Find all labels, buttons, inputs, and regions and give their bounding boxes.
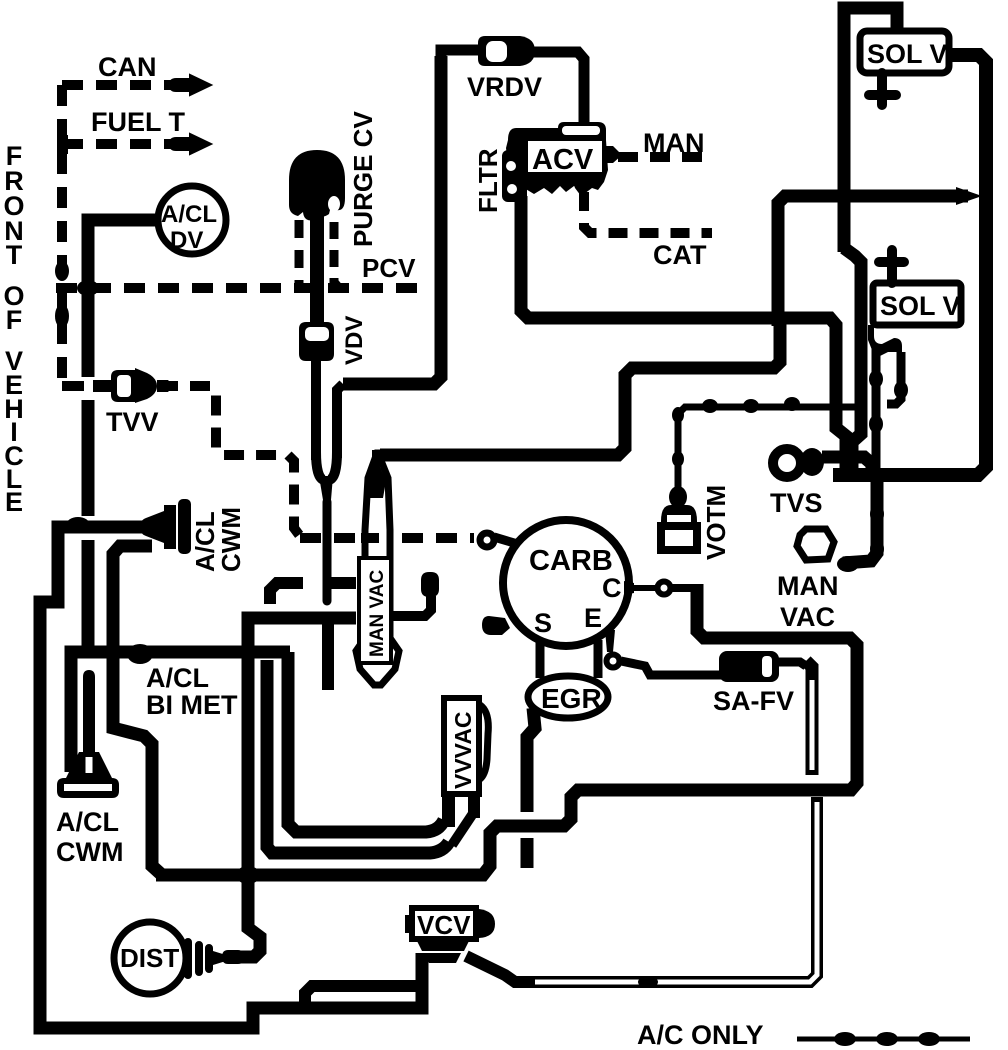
valve purge CV white notch xyxy=(328,196,340,212)
wire stub below obelisk line xyxy=(322,624,334,690)
wire ACV bottom line across xyxy=(521,196,846,468)
svg-text:A/CL: A/CL xyxy=(146,663,209,693)
filter FLTR box xyxy=(502,150,527,202)
valve VDV white slot xyxy=(305,327,329,341)
svg-text:T: T xyxy=(6,240,23,270)
wire E-ring lead to SA-FV xyxy=(621,661,721,675)
valve VRDV body xyxy=(478,36,535,66)
svg-text:TVV: TVV xyxy=(106,407,159,437)
svg-text:MAN: MAN xyxy=(777,571,839,601)
valve TVS donut xyxy=(773,449,801,477)
svg-text:VAC: VAC xyxy=(780,602,835,632)
node PCV junction on solid line xyxy=(77,280,99,296)
node diamond junction horn line xyxy=(66,517,90,533)
node dot on A/C hose xyxy=(638,976,658,988)
solenoid SOL V1 dagger xyxy=(869,73,896,105)
solenoid SOL V2 dagger xyxy=(879,250,904,283)
wire C-port thin lead xyxy=(628,585,655,591)
wire VDV thin stem xyxy=(323,502,332,601)
svg-text:ACV: ACV xyxy=(532,144,594,176)
svg-text:MAN VAC: MAN VAC xyxy=(367,569,388,657)
port CARB S nub xyxy=(482,616,510,635)
valve VVVAC right bracket xyxy=(480,705,488,779)
port CARB E ring xyxy=(607,655,620,668)
wire top U into SOL V1 xyxy=(844,8,897,252)
svg-text:SOL V: SOL V xyxy=(867,39,948,69)
wire C-ring to loop lead xyxy=(672,584,697,592)
svg-text:E: E xyxy=(5,487,23,517)
wire VCV left feeder xyxy=(305,986,422,1005)
svg-text:F: F xyxy=(6,305,23,335)
svg-text:CWM: CWM xyxy=(216,507,246,572)
node knob near obelisk xyxy=(421,572,439,597)
valve VVVAC left leg xyxy=(442,794,455,827)
wire VRDV left top xyxy=(441,50,478,62)
wire CAN dashed xyxy=(62,80,178,90)
wire big C-port loop xyxy=(156,584,857,875)
motor A/CL CWM bottom horn stem xyxy=(84,671,94,758)
wire SOL V2 lower stub long xyxy=(872,348,881,470)
valve ACV top slot xyxy=(558,122,606,140)
wire obelisk right side L to knob xyxy=(392,596,431,616)
wire VRDV right to ACV top xyxy=(533,52,584,122)
valve VCV left tick xyxy=(405,915,413,933)
wire BI MET right wall to hose hook xyxy=(288,652,444,832)
wire SOL V1 right rail down to TVS xyxy=(833,55,986,475)
wire MAN dashed xyxy=(618,152,712,162)
valve VOTM bucket xyxy=(661,505,697,526)
wire CAT dashed vertical xyxy=(584,192,712,233)
wire VOTM riser and across xyxy=(678,407,863,498)
solenoid SOL V2 box xyxy=(873,283,961,325)
arrow CAN xyxy=(170,75,211,95)
gauge MAN VAC text frame xyxy=(359,558,391,663)
wire right mid rail jog down to TVS junction xyxy=(844,248,861,468)
svg-text:PCV: PCV xyxy=(362,253,416,283)
wire SOL V2 lower stub short xyxy=(887,352,901,404)
wire purge CV stem xyxy=(310,205,324,324)
svg-text:S: S xyxy=(534,608,552,638)
node DIST junction blob xyxy=(222,950,244,964)
svg-text:E: E xyxy=(584,603,602,633)
port CARB C nipple xyxy=(624,581,634,595)
wire purge left drip dashed xyxy=(295,220,304,286)
wire CARB left ring nub xyxy=(494,537,521,545)
wire ACV branch up to SOL V right rail xyxy=(778,196,968,326)
valve ACV white label patch xyxy=(528,141,602,172)
svg-text:FLTR: FLTR xyxy=(473,148,503,213)
solenoid SOL V1 box xyxy=(860,31,949,73)
wire inner wall to second hose hook xyxy=(267,660,449,853)
wire purge right drip dashed xyxy=(334,222,339,288)
svg-text:SOL V: SOL V xyxy=(880,291,961,321)
valve VCV right bulge xyxy=(479,909,495,938)
svg-text:A/CL: A/CL xyxy=(56,807,119,837)
wire A/CL BI MET top line xyxy=(71,652,290,772)
valve ACV right arrow nub xyxy=(602,146,622,163)
node fat dash lower on left dashed line xyxy=(55,304,69,328)
motor A/CL CWM bottom horn bell xyxy=(66,752,112,778)
svg-text:FUEL T: FUEL T xyxy=(91,107,186,137)
wire TVV dashed left nipple xyxy=(62,381,84,391)
svg-text:CAT: CAT xyxy=(653,240,707,270)
svg-text:DIST: DIST xyxy=(120,943,179,973)
carburetor CARB circle xyxy=(503,520,629,646)
node T junction of FUEL T dashed xyxy=(57,135,68,154)
valve VCV base bands xyxy=(417,941,469,951)
wire y583 hose left segment with cap xyxy=(270,583,303,604)
wire MAN VAC riser xyxy=(380,324,780,455)
valve EGR ellipse xyxy=(528,676,608,718)
label FRONT OF VEHICLE xyxy=(3,141,24,517)
node dots on SOL V2 stubs xyxy=(869,370,883,388)
wire dash crossing obelisk xyxy=(361,533,379,543)
distributor DIST ribs xyxy=(188,942,209,975)
wire EGR down line lower xyxy=(521,838,534,868)
wire y583 hose right segment to obelisk xyxy=(331,577,356,589)
svg-text:VCV: VCV xyxy=(417,910,471,940)
valve A/CL DV circle xyxy=(158,186,226,254)
port CARB left ring xyxy=(480,533,494,547)
wire obelisk left line to DIST xyxy=(230,618,356,957)
legend A/C dots xyxy=(834,1032,856,1046)
valve ACV body blob xyxy=(506,128,608,196)
wire A/C only hose white core xyxy=(535,802,817,982)
valve TVV right nipple xyxy=(157,380,171,392)
port CARB C ring xyxy=(658,582,671,595)
wire PCV dashed xyxy=(56,283,422,293)
gauge MAN VAC obelisk tip xyxy=(366,450,386,498)
wire horn1 lower branch xyxy=(113,546,162,875)
wire A/CL DV to left column xyxy=(88,220,157,516)
wire TVS branch to MAN VAC hex xyxy=(843,478,877,563)
valve TVV white slot xyxy=(117,375,131,397)
solenoid SOL V2 bottom hook port xyxy=(868,325,902,356)
svg-text:SA-FV: SA-FV xyxy=(713,686,794,716)
svg-text:BI MET: BI MET xyxy=(146,690,238,720)
valve VVVAC box xyxy=(444,698,479,794)
wire main left loop: horn line down left edge to bottom and VCV xyxy=(40,527,422,1028)
svg-text:VDV: VDV xyxy=(341,316,368,365)
valve VVVAC right leg xyxy=(468,794,480,818)
node dot on VOTM riser xyxy=(669,486,687,508)
wire TVV dashed right path xyxy=(158,386,300,536)
node diamond junction BI MET line xyxy=(127,644,153,664)
wire VRDV left line down and over to VDV xyxy=(343,56,441,384)
wire FUEL T dashed xyxy=(62,139,178,149)
svg-text:VRDV: VRDV xyxy=(467,72,542,102)
svg-text:PURGE CV: PURGE CV xyxy=(348,111,378,247)
svg-text:VOTM: VOTM xyxy=(701,485,731,560)
svg-text:CWM: CWM xyxy=(56,837,123,867)
svg-text:A/CL: A/CL xyxy=(161,201,217,228)
valve SA-FV body xyxy=(719,651,779,682)
gap where TVV dashed crosses left solid line xyxy=(80,377,96,400)
valve ACV bottom drip xyxy=(570,172,592,196)
svg-text:TVS: TVS xyxy=(770,488,823,518)
svg-text:CARB: CARB xyxy=(529,545,613,577)
arrow FUEL T xyxy=(170,134,211,154)
port CARB E nipple xyxy=(605,630,615,652)
wire horn2 stem line xyxy=(82,540,95,646)
valve VDV taper stem xyxy=(319,476,333,507)
wire CARB neck to EGR right xyxy=(594,640,603,678)
valve purge CV bulb xyxy=(289,150,345,220)
wire CARB neck to EGR left xyxy=(536,642,545,678)
node arrowhead on SOL V rail junction xyxy=(956,187,982,205)
wire left vertical dashed xyxy=(57,85,67,384)
motor A/CL CWM top horn xyxy=(140,511,164,543)
wire SA-FV right tube down xyxy=(806,661,812,775)
valve VCV box xyxy=(412,908,476,939)
svg-text:EGR: EGR xyxy=(541,683,602,714)
valve VRDV white slot xyxy=(486,41,507,62)
svg-text:C: C xyxy=(602,573,622,603)
gauge MAN VAC obelisk body xyxy=(356,453,399,685)
svg-text:MAN: MAN xyxy=(643,128,705,158)
wire A/C only hose from VCV corner xyxy=(466,797,817,982)
node junction on y875 line xyxy=(236,866,260,884)
wire EGR down line xyxy=(527,708,535,812)
valve VDV box xyxy=(299,322,334,361)
wire legend line xyxy=(797,1037,970,1042)
wire VDV merge stem xyxy=(316,452,337,480)
valve TVS nipple xyxy=(800,448,824,476)
wire long dashed to CARB xyxy=(300,533,474,543)
wire SA-FV right nipple lead xyxy=(777,662,806,666)
distributor DIST circle xyxy=(114,922,186,994)
node dots on VOTM horizontal xyxy=(702,399,718,413)
valve TVV body xyxy=(111,368,157,403)
svg-text:VVVAC: VVVAC xyxy=(450,711,476,789)
svg-text:DV: DV xyxy=(170,227,203,254)
svg-text:CAN: CAN xyxy=(98,52,157,82)
svg-text:A/C ONLY: A/C ONLY xyxy=(637,1020,764,1050)
port MAN VAC hex xyxy=(797,529,834,560)
wire SA-FV tube white core xyxy=(810,680,815,770)
node fat dash upper on left dashed line xyxy=(55,261,69,281)
wire VDV left leg xyxy=(311,361,321,460)
